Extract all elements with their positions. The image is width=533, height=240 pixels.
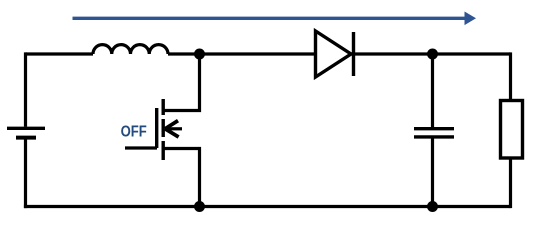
svg-text:OFF: OFF [121, 123, 147, 140]
